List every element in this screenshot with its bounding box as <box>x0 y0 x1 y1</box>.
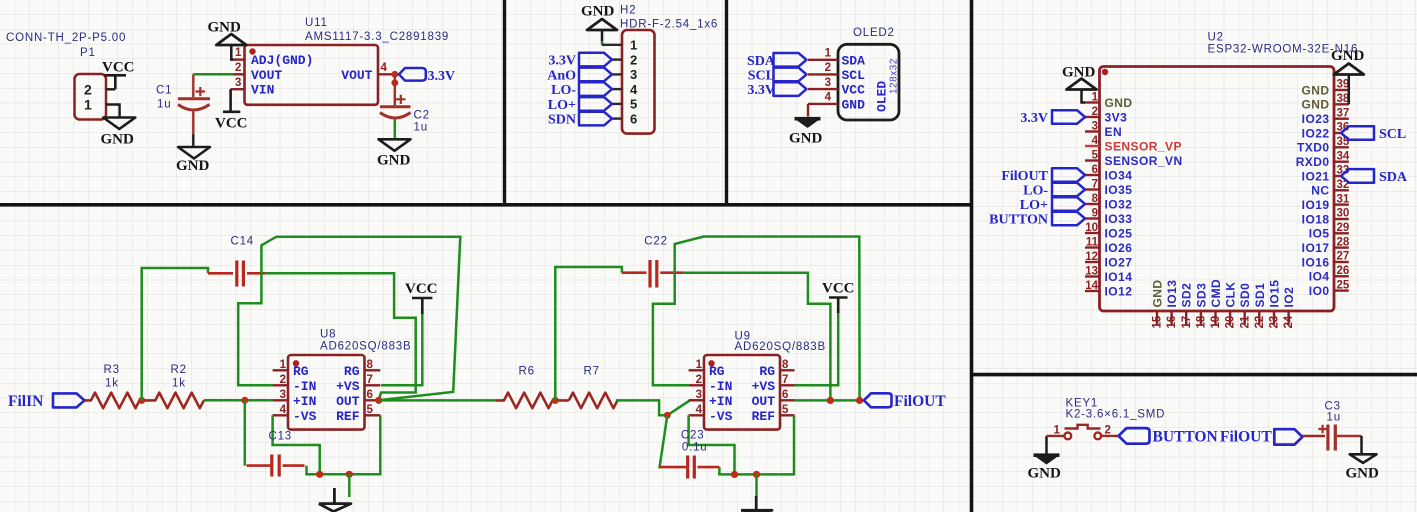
svg-text:C14: C14 <box>231 236 255 248</box>
svg-text:14: 14 <box>1085 280 1098 292</box>
junction at R2/C13 branch <box>241 397 248 404</box>
svg-text:IO16: IO16 <box>1302 255 1330 269</box>
svg-text:29: 29 <box>1337 222 1350 234</box>
svg-text:FilOUT: FilOUT <box>1220 429 1272 446</box>
capacitor C2 <box>380 74 411 118</box>
svg-text:R6: R6 <box>519 366 535 378</box>
U8 pin 8 RG <box>365 369 381 371</box>
svg-text:0.1u: 0.1u <box>682 441 708 453</box>
svg-text:-VS: -VS <box>709 409 733 424</box>
svg-text:8: 8 <box>367 359 374 371</box>
U8 pin 5 REF <box>365 414 381 416</box>
wire VCC to +VS <box>381 314 422 385</box>
svg-text:CLK: CLK <box>1224 281 1238 307</box>
svg-text:23: 23 <box>1269 316 1281 329</box>
U2 pin 29 IO5 <box>1309 222 1350 241</box>
U2 pin 33 IO21 <box>1302 165 1350 184</box>
svg-text:3: 3 <box>280 389 286 401</box>
svg-text:5: 5 <box>630 97 637 112</box>
svg-text:OLED: OLED <box>875 81 890 112</box>
svg-text:TXD0: TXD0 <box>1297 141 1329 155</box>
svg-text:SDA: SDA <box>842 53 866 68</box>
U2 pin 34 RXD0 <box>1296 150 1350 169</box>
svg-text:8: 8 <box>782 359 789 371</box>
svg-text:31: 31 <box>1337 193 1350 205</box>
svg-text:3V3: 3V3 <box>1105 110 1128 124</box>
svg-text:SD2: SD2 <box>1180 283 1194 308</box>
svg-text:5: 5 <box>367 404 374 416</box>
U2 pin 11 IO26 <box>1085 237 1132 255</box>
svg-text:1u: 1u <box>1327 412 1341 424</box>
svg-text:2: 2 <box>1105 425 1111 437</box>
U8 pin 7 +VS <box>365 384 381 386</box>
pushbutton KEY1 <box>1047 425 1119 440</box>
svg-text:25: 25 <box>1337 279 1350 291</box>
U2 pin 31 IO19 <box>1302 193 1350 212</box>
svg-text:+IN: +IN <box>709 394 732 409</box>
U8 pin 2 -IN <box>273 384 288 386</box>
regulator U11 body <box>245 45 379 105</box>
U8 pin1 dot <box>293 360 299 366</box>
ground at U2 pins 39/38 <box>1331 48 1365 104</box>
svg-text:SDN: SDN <box>548 113 576 128</box>
wire C22 right to top feedback <box>675 237 860 401</box>
svg-text:17: 17 <box>1181 316 1193 329</box>
svg-text:IO5: IO5 <box>1309 227 1330 241</box>
svg-text:4: 4 <box>381 62 388 74</box>
net flag 3.3V <box>1020 110 1085 126</box>
ground at C3 <box>1350 454 1377 463</box>
wire C22 right to RG-side loop <box>683 273 831 401</box>
H2 pin 1 stub <box>605 44 622 46</box>
svg-text:NC: NC <box>1311 184 1329 198</box>
svg-text:IO13: IO13 <box>1165 280 1179 308</box>
U2 pin 17 SD2 <box>1180 283 1194 329</box>
svg-text:3: 3 <box>235 77 241 89</box>
U2 pin 3 EN <box>1085 121 1122 139</box>
section divider horizontal y=374 (right block) <box>972 373 1417 377</box>
svg-text:GND: GND <box>101 132 135 148</box>
net flag BUTTON <box>989 212 1085 228</box>
junction R3/R2 <box>138 397 145 404</box>
net flag LO- at pin4 <box>579 82 612 96</box>
svg-text:18: 18 <box>1196 315 1208 328</box>
svg-text:C1: C1 <box>156 85 172 97</box>
wire C14 right to top feedback <box>261 237 460 401</box>
ESP32 U2 body <box>1100 67 1335 312</box>
junction C23/-VS <box>731 471 738 478</box>
net flag BUTTON <box>1119 428 1150 444</box>
svg-text:SDA: SDA <box>1379 170 1408 185</box>
svg-text:SD1: SD1 <box>1253 283 1267 308</box>
svg-text:2: 2 <box>235 62 241 74</box>
junction GND branch <box>346 471 353 478</box>
svg-text:SD0: SD0 <box>1238 283 1252 308</box>
svg-text:1k: 1k <box>105 378 119 390</box>
svg-text:5: 5 <box>782 404 789 416</box>
svg-text:3: 3 <box>1092 121 1098 133</box>
svg-text:1: 1 <box>235 47 242 59</box>
svg-text:VCC: VCC <box>215 116 248 132</box>
VCC symbol under U11 pin 3 <box>223 89 240 112</box>
U2 pin 5 SENSOR_VN <box>1085 150 1183 168</box>
net flag SDN at pin6 <box>579 112 612 126</box>
net flag AnO at pin3 <box>579 68 612 82</box>
ground under U9 <box>741 496 772 512</box>
svg-text:IO17: IO17 <box>1302 241 1330 255</box>
net flag LO+ at pin5 <box>579 97 612 111</box>
wire C14 right to -IN loop <box>238 273 272 385</box>
svg-text:REF: REF <box>752 409 776 424</box>
svg-text:2: 2 <box>84 82 92 98</box>
wire junction down to C23 <box>660 415 668 467</box>
junction FilOUT <box>856 397 863 404</box>
svg-text:GND: GND <box>1301 98 1329 112</box>
svg-text:SCL: SCL <box>748 68 775 83</box>
svg-text:GND: GND <box>1301 83 1329 97</box>
net flag LO- <box>1023 183 1085 199</box>
svg-text:GND: GND <box>1346 466 1380 482</box>
svg-text:20: 20 <box>1225 316 1237 329</box>
svg-text:OLED2: OLED2 <box>853 27 895 39</box>
H2 pin 5 stub <box>612 103 622 105</box>
svg-text:LO-: LO- <box>551 83 576 98</box>
svg-text:21: 21 <box>1239 315 1251 328</box>
wire -VS down around <box>273 415 320 474</box>
svg-text:GND: GND <box>1331 48 1365 64</box>
signal wire U9 OUT to FilOUT <box>795 399 864 402</box>
wire to ground <box>348 474 351 497</box>
U9 pin 7 +VS <box>780 384 795 386</box>
wire KEY1 pin1 to ground <box>1045 436 1048 454</box>
svg-text:IO27: IO27 <box>1105 255 1133 269</box>
wire junction up to C22 <box>555 267 622 400</box>
svg-text:2: 2 <box>1092 106 1098 118</box>
U11 pin1 dot <box>249 48 255 54</box>
svg-text:34: 34 <box>1337 150 1350 162</box>
U2 pin 26 IO4 <box>1309 265 1350 284</box>
svg-text:30: 30 <box>1337 208 1350 220</box>
svg-text:IO14: IO14 <box>1105 270 1133 284</box>
U8 pin 6 OUT <box>365 399 379 401</box>
svg-text:6: 6 <box>782 389 788 401</box>
svg-text:1u: 1u <box>157 99 171 111</box>
U2 pin 4 SENSOR_VP <box>1085 135 1182 153</box>
wire C14 right to RG-side loop <box>266 273 416 400</box>
wire VCC to +VS <box>795 313 839 385</box>
junction at +IN branch <box>664 412 671 419</box>
svg-text:27: 27 <box>1337 251 1350 263</box>
svg-text:VCC: VCC <box>822 281 855 297</box>
svg-text:4: 4 <box>696 404 703 416</box>
ground at U2 pin 1 <box>1062 65 1097 103</box>
svg-text:C2: C2 <box>414 110 430 122</box>
svg-text:24: 24 <box>1283 315 1295 328</box>
U2 pin 28 IO17 <box>1302 236 1350 255</box>
ground at P1 pin 1 <box>103 118 135 130</box>
svg-text:1: 1 <box>280 359 287 371</box>
U9 pin 5 REF <box>780 414 795 416</box>
svg-text:128x32: 128x32 <box>889 58 900 94</box>
U2 pin 14 IO12 <box>1085 280 1132 298</box>
capacitor C1 <box>178 74 210 134</box>
svg-text:10: 10 <box>1085 222 1098 234</box>
section divider vertical x=726 <box>725 0 728 206</box>
wire R2 to U8 +IN <box>204 399 273 402</box>
svg-text:IO23: IO23 <box>1302 112 1330 126</box>
svg-text:GND: GND <box>1062 65 1096 81</box>
svg-text:6: 6 <box>1092 164 1098 176</box>
svg-text:39: 39 <box>1337 79 1350 91</box>
svg-text:4: 4 <box>630 82 638 97</box>
svg-text:6: 6 <box>630 111 637 126</box>
svg-text:OUT: OUT <box>752 394 776 409</box>
U9 pin 2 -IN <box>689 384 704 386</box>
svg-text:+VS: +VS <box>752 379 776 394</box>
U2 pin 16 IO13 <box>1165 280 1179 329</box>
svg-text:AMS1117-3.3_C2891839: AMS1117-3.3_C2891839 <box>305 31 449 43</box>
svg-text:9: 9 <box>1092 208 1098 220</box>
U2 pin 2 3V3 <box>1085 106 1127 124</box>
C1 lower lead to ground <box>192 135 194 147</box>
U2 pin1 dot <box>1102 69 1108 75</box>
svg-text:7: 7 <box>1092 179 1098 191</box>
svg-text:SD3: SD3 <box>1194 283 1208 308</box>
svg-text:8: 8 <box>1092 193 1099 205</box>
U2 pin 6 IO34 <box>1085 164 1132 182</box>
U2 pin 1 GND <box>1085 92 1133 110</box>
svg-text:OUT: OUT <box>336 394 360 409</box>
section divider vertical x=504 <box>503 0 506 206</box>
OLED2 pin 4 stub <box>808 103 838 105</box>
svg-text:SENSOR_VP: SENSOR_VP <box>1105 139 1182 153</box>
wire REF down <box>307 415 381 474</box>
svg-text:15: 15 <box>1152 315 1164 328</box>
ground at KEY1 pin1 <box>1034 453 1060 464</box>
svg-text:IO25: IO25 <box>1105 226 1133 240</box>
svg-text:REF: REF <box>336 409 360 424</box>
svg-text:-IN: -IN <box>293 379 316 394</box>
wire junction up to C14 <box>142 268 208 400</box>
U2 pin 32 NC <box>1311 179 1349 198</box>
svg-text:19: 19 <box>1210 316 1222 329</box>
svg-text:3: 3 <box>630 67 637 82</box>
net flag SDA at pin1 <box>774 53 807 67</box>
svg-text:2: 2 <box>696 374 702 386</box>
svg-text:U2: U2 <box>1208 32 1224 44</box>
U2 pin 35 TXD0 <box>1297 136 1350 155</box>
U11 pin 4 stub <box>378 73 399 75</box>
svg-text:GND: GND <box>377 153 411 169</box>
svg-text:IO18: IO18 <box>1302 212 1330 226</box>
junction C13/-VS <box>316 471 323 478</box>
svg-text:3.3V: 3.3V <box>1020 111 1048 126</box>
svg-text:-IN: -IN <box>709 379 732 394</box>
svg-text:3.3V: 3.3V <box>548 54 576 69</box>
svg-text:1k: 1k <box>172 378 186 390</box>
U2 pin 23 IO15 <box>1268 280 1282 329</box>
OLED2 body <box>838 44 899 120</box>
svg-text:13: 13 <box>1085 266 1098 278</box>
OLED2 pin 3 stub <box>808 88 838 90</box>
connector P1 body <box>75 74 107 120</box>
svg-text:7: 7 <box>367 374 373 386</box>
junction feedback/OUT <box>827 397 834 404</box>
svg-text:FilIN: FilIN <box>8 393 43 410</box>
svg-text:16: 16 <box>1166 316 1178 329</box>
net flag SCL at pin2 <box>774 68 807 82</box>
U2 pin 37 IO23 <box>1302 107 1350 126</box>
svg-text:VOUT: VOUT <box>251 68 282 83</box>
svg-text:FilOUT: FilOUT <box>1001 169 1048 184</box>
svg-text:RXD0: RXD0 <box>1296 155 1330 169</box>
svg-text:IO32: IO32 <box>1105 197 1133 211</box>
U9 pin 1 RG <box>689 369 704 371</box>
svg-text:3.3V: 3.3V <box>747 83 775 98</box>
svg-text:R3: R3 <box>104 364 120 376</box>
svg-text:2: 2 <box>825 62 831 74</box>
svg-text:IO19: IO19 <box>1302 198 1330 212</box>
junction R6/R7 <box>552 397 559 404</box>
U8 pin 3 +IN <box>273 399 288 401</box>
svg-text:1u: 1u <box>414 122 428 134</box>
VCC symbol at P1 pin 2 <box>105 75 127 89</box>
svg-text:1: 1 <box>1054 425 1061 437</box>
section divider vertical x=971 <box>970 0 974 512</box>
svg-text:SCL: SCL <box>1379 127 1406 142</box>
wire pin4 to ground <box>807 104 809 117</box>
net flag 3.3V at pin2 <box>579 53 612 67</box>
svg-text:IO35: IO35 <box>1105 183 1133 197</box>
svg-text:P1: P1 <box>80 47 96 59</box>
svg-text:2: 2 <box>280 374 286 386</box>
net flag SCL <box>1341 126 1406 142</box>
svg-text:AnO: AnO <box>547 68 576 83</box>
svg-text:IO12: IO12 <box>1105 284 1133 298</box>
svg-text:GND: GND <box>208 20 242 36</box>
svg-text:R7: R7 <box>584 366 600 378</box>
net flag SDA <box>1341 169 1408 185</box>
svg-text:+IN: +IN <box>293 394 316 409</box>
svg-text:28: 28 <box>1337 236 1350 248</box>
svg-text:IO0: IO0 <box>1309 284 1330 298</box>
svg-text:5: 5 <box>1092 150 1099 162</box>
U8 pin 4 -VS <box>273 414 288 416</box>
U2 pin 12 IO27 <box>1085 251 1132 269</box>
P1 pin 2 stub <box>106 88 115 90</box>
U2 pin 21 SD0 <box>1238 283 1252 329</box>
filled ground under OLED2 <box>795 117 821 128</box>
svg-text:BUTTON: BUTTON <box>1153 429 1218 446</box>
svg-text:ADJ(GND): ADJ(GND) <box>251 53 313 68</box>
svg-text:RG: RG <box>759 364 775 379</box>
U2 pin 9 IO33 <box>1085 208 1132 226</box>
svg-text:GND: GND <box>176 158 210 174</box>
wire C1 to U11 VOUT <box>193 73 233 76</box>
net flag FilOUT <box>1001 168 1085 184</box>
svg-text:LO+: LO+ <box>1020 198 1048 213</box>
svg-text:H2: H2 <box>620 5 636 17</box>
wire C3 to ground <box>1360 436 1363 454</box>
svg-text:11: 11 <box>1086 237 1099 249</box>
junction dot at pin 4 <box>391 71 398 78</box>
H2 pin 2 stub <box>612 58 622 60</box>
svg-text:U11: U11 <box>305 17 328 29</box>
svg-text:3.3V: 3.3V <box>428 69 456 84</box>
P1 pin 1 stub <box>106 105 120 118</box>
svg-text:-VS: -VS <box>293 409 317 424</box>
svg-text:C22: C22 <box>644 235 668 247</box>
svg-text:IO4: IO4 <box>1309 270 1330 284</box>
H2 pin 4 stub <box>612 88 622 90</box>
U2 pin 15 GND <box>1151 279 1165 328</box>
net flag LO+ <box>1020 197 1085 213</box>
U2 pin 8 IO32 <box>1085 193 1132 211</box>
OLED2 pin 1 stub <box>808 59 838 61</box>
svg-text:IO21: IO21 <box>1302 169 1330 183</box>
U2 pin 25 IO0 <box>1309 279 1350 298</box>
svg-text:EN: EN <box>1105 125 1123 139</box>
svg-text:VCC: VCC <box>102 60 135 76</box>
svg-text:12: 12 <box>1085 251 1098 263</box>
svg-text:SENSOR_VN: SENSOR_VN <box>1105 154 1183 168</box>
wire down to C13 <box>244 400 247 465</box>
svg-text:IO15: IO15 <box>1268 280 1282 308</box>
svg-text:LO+: LO+ <box>548 98 576 113</box>
svg-text:1: 1 <box>84 97 92 113</box>
wire R7 to +IN with jog <box>616 400 704 415</box>
U2 pin 19 CMD <box>1209 279 1223 329</box>
svg-text:RG: RG <box>344 364 360 379</box>
wire flag to C3 <box>1302 435 1325 437</box>
svg-text:22: 22 <box>1254 316 1266 329</box>
section divider horizontal y=205 <box>0 203 972 207</box>
U2 pin 18 SD3 <box>1194 283 1208 329</box>
svg-text:GND: GND <box>1151 279 1165 307</box>
U2 pin 38 GND <box>1301 93 1349 112</box>
svg-text:IO33: IO33 <box>1105 212 1133 226</box>
wire C22 right to -IN loop <box>653 273 689 386</box>
U8 OUT junction <box>375 397 382 404</box>
U2 pin 30 IO18 <box>1302 208 1350 227</box>
svg-text:AD620SQ/883B: AD620SQ/883B <box>735 341 826 353</box>
wire REF down <box>719 415 794 474</box>
svg-text:AD620SQ/883B: AD620SQ/883B <box>320 341 411 353</box>
svg-text:+VS: +VS <box>336 379 360 394</box>
svg-text:1: 1 <box>825 48 832 60</box>
svg-text:6: 6 <box>367 389 373 401</box>
svg-text:GND: GND <box>1028 466 1062 482</box>
svg-text:GND: GND <box>789 131 823 147</box>
svg-text:VCC: VCC <box>842 83 866 98</box>
opamp U8 body <box>288 355 365 430</box>
U2 pin 27 IO16 <box>1302 251 1350 270</box>
svg-text:RG: RG <box>293 364 309 379</box>
svg-text:3: 3 <box>696 389 702 401</box>
svg-text:4: 4 <box>1092 135 1099 147</box>
svg-text:3: 3 <box>825 77 831 89</box>
svg-text:R2: R2 <box>171 364 187 376</box>
U2 pin 20 CLK <box>1224 281 1238 328</box>
net flag 3.3V at pin3 <box>774 82 807 96</box>
U2 pin 13 IO14 <box>1085 266 1132 284</box>
svg-text:RG: RG <box>709 364 725 379</box>
U11 pin 1 stub <box>234 58 245 60</box>
U11 pin 2 stub <box>234 73 245 75</box>
svg-text:37: 37 <box>1337 107 1350 119</box>
svg-text:U8: U8 <box>320 329 336 341</box>
U2 pin 22 SD1 <box>1253 283 1267 329</box>
